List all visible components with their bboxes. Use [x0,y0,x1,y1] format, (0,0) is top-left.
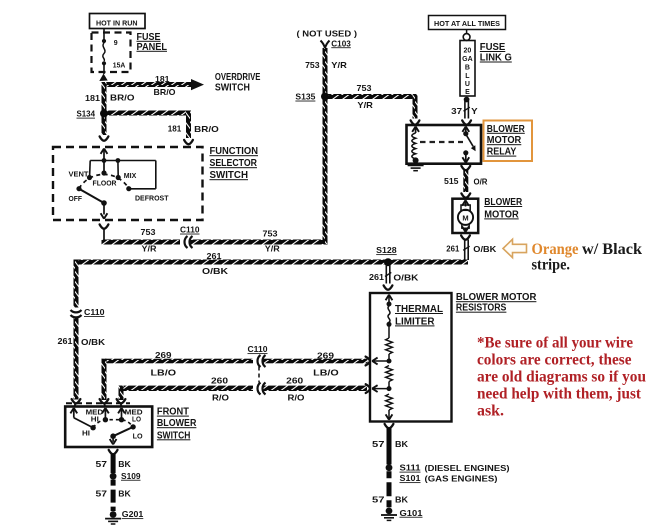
svg-text:753: 753 [141,227,156,237]
svg-text:BK: BK [118,459,131,469]
svg-text:LB/O: LB/O [313,368,339,378]
svg-text:MOTOR: MOTOR [487,135,522,146]
relay ground [408,162,424,171]
svg-text:181: 181 [85,93,100,103]
fuse panel dashed box [92,33,131,73]
wire 181 BR/O S134 branch right [104,111,219,145]
svg-text:261: 261 [446,244,459,254]
svg-text:753: 753 [305,60,320,70]
resistor element R1 [386,327,393,362]
svg-text:57: 57 [96,488,108,498]
svg-text:S111: S111 [400,463,421,473]
blower switch internals [70,408,143,444]
wire 261 O/BK left riser to blower switch [58,260,106,400]
label OVERDRIVE SWITCH [215,72,261,93]
svg-text:C103: C103 [331,38,351,48]
wire 261 O/BK main horizontal run [74,251,469,276]
svg-text:57: 57 [372,439,385,449]
wire 37 Y fuse link to relay [451,97,478,125]
connector C110 break on 753 wire [180,225,200,248]
svg-text:FUNCTION: FUNCTION [210,146,259,157]
wire 753 Y/R from S135 to relay [325,83,419,125]
label BLOWER MOTOR [484,197,523,220]
wire 261 O/BK S128 drop to resistors [369,265,419,290]
svg-text:Y/R: Y/R [331,60,347,70]
relay coil [412,127,419,164]
svg-text:MED: MED [125,409,143,416]
annotation red note [477,334,646,419]
svg-text:MOTOR: MOTOR [484,209,519,220]
svg-text:M: M [462,213,468,222]
svg-text:BLOWER MOTOR: BLOWER MOTOR [456,292,537,303]
resistor tap node to 260 [372,385,392,392]
svg-text:are old diagrams so if you: are old diagrams so if you [477,368,646,385]
svg-text:260: 260 [286,376,303,386]
svg-text:LO: LO [132,416,142,423]
svg-text:B: B [465,64,470,71]
fuse link G 20GA BLUE [460,30,475,97]
svg-text:HI: HI [91,416,99,423]
resistor element R2 [386,366,393,389]
connector C110 break on 261 riser [71,307,105,318]
label FUNCTION SELECTOR SWITCH [210,146,259,181]
svg-text:w/ Black: w/ Black [582,241,642,258]
junction arrow at fuse output [99,74,107,82]
blower motor M internals [458,200,473,232]
wire 753 Y/R vertical C103 through S135 down to 753 run [305,48,347,244]
svg-text:G101: G101 [400,508,423,518]
front blower switch box [65,407,152,448]
wire 57 BK S111 to G101 [372,471,409,507]
svg-text:BR/O: BR/O [110,93,135,103]
svg-text:S134: S134 [77,109,96,119]
wire 269 LB/O horizontal [102,350,371,378]
svg-text:57: 57 [372,494,385,504]
svg-text:S101: S101 [400,473,421,483]
svg-text:O/R: O/R [474,176,488,186]
svg-text:O/BK: O/BK [473,244,497,254]
connector C110 break on 260 wire [253,383,266,395]
svg-text:*Be sure of all your wire: *Be sure of all your wire [477,334,633,351]
wire 57 BK switch to S109 [96,450,132,473]
svg-text:R/O: R/O [288,393,305,403]
svg-text:colors are correct, these: colors are correct, these [477,351,632,368]
wire 260 R/O riser [119,386,124,400]
HOT AT ALL TIMES power box [429,16,506,30]
svg-text:181: 181 [168,123,182,133]
node ( NOT USED ) C103 [297,28,358,48]
splice S111 S101 [386,463,510,484]
svg-text:LIMITER: LIMITER [395,316,435,327]
svg-text:S109: S109 [121,471,141,481]
splice S135 [295,92,315,102]
svg-text:260: 260 [211,376,228,386]
svg-text:GA: GA [462,56,473,63]
svg-text:DEFROST: DEFROST [135,194,169,203]
svg-text:Y/R: Y/R [142,243,157,253]
svg-text:BR/O: BR/O [154,87,176,97]
splice S128 [376,245,397,266]
svg-text:SWITCH: SWITCH [210,170,249,181]
svg-text:BLOWER: BLOWER [157,418,197,429]
svg-text:O/BK: O/BK [81,337,106,347]
svg-text:L: L [465,73,470,80]
wire 181 BR/O to overdrive switch [102,74,204,97]
resistor tap node to 269 [372,358,392,365]
svg-text:BLOWER: BLOWER [487,124,526,135]
svg-text:FUSE: FUSE [480,42,506,53]
svg-text:HOT IN RUN: HOT IN RUN [96,18,138,27]
ground G101 [381,508,423,521]
svg-text:20: 20 [464,48,472,55]
svg-text:BK: BK [118,488,131,498]
svg-text:37: 37 [451,106,462,116]
svg-text:(DIESEL ENGINES): (DIESEL ENGINES) [425,463,510,473]
svg-text:stripe.: stripe. [532,257,571,274]
label FUSE LINK G [480,42,512,64]
svg-text:O/BK: O/BK [393,273,419,283]
svg-text:E: E [465,89,470,96]
svg-text:MED: MED [86,409,104,416]
label BLOWER MOTOR RELAY orange box [484,121,533,162]
svg-text:BR/O: BR/O [194,124,219,134]
svg-text:FRONT: FRONT [157,407,189,418]
svg-text:BLOWER: BLOWER [484,197,523,208]
wire 515 O/R relay to motor [444,166,488,198]
svg-text:R/O: R/O [212,393,229,403]
svg-text:(GAS ENGINES): (GAS ENGINES) [425,473,498,483]
svg-text:753: 753 [263,229,278,239]
svg-text:S135: S135 [295,92,315,102]
svg-text:SWITCH: SWITCH [215,82,250,93]
svg-text:LB/O: LB/O [151,368,177,378]
HOT IN RUN power box [90,14,146,29]
relay switch contact [462,127,475,163]
svg-text:C110: C110 [180,225,200,235]
annotation arrow orange [503,239,527,257]
svg-text:261: 261 [369,272,384,282]
svg-text:U: U [465,81,470,88]
blower motor box [452,199,478,233]
wire 181 BR/O fuse to S134 [85,82,135,114]
svg-text:Y: Y [471,106,478,116]
function selector switch dashed box [53,147,203,220]
svg-text:753: 753 [357,83,372,93]
svg-text:SWITCH: SWITCH [157,430,191,441]
svg-text:RELAY: RELAY [487,147,517,158]
label FRONT BLOWER SWITCH [157,407,197,442]
svg-text:9: 9 [114,40,118,47]
svg-text:G201: G201 [122,509,144,519]
svg-text:269: 269 [317,351,334,361]
splice dot S135 [321,93,329,101]
wire 269 LB/O riser [102,359,107,400]
svg-text:OFF: OFF [69,194,83,203]
svg-text:C110: C110 [248,344,268,354]
svg-text:LINK G: LINK G [480,53,512,64]
splice S109 [110,471,141,481]
connector C110 break on 269 wire [248,344,268,383]
thermal limiter [386,295,443,328]
svg-text:S128: S128 [376,245,397,255]
wire S134 down to function switch [100,114,109,141]
svg-text:Y/R: Y/R [265,244,280,254]
svg-text:THERMAL: THERMAL [395,304,443,315]
svg-text:181: 181 [155,74,170,84]
wire 57 BK S109 to G201 [96,480,132,511]
svg-text:HOT AT ALL TIMES: HOT AT ALL TIMES [434,19,500,28]
svg-text:O/BK: O/BK [202,266,229,276]
svg-text:FLOOR: FLOOR [93,178,118,187]
svg-text:BK: BK [395,439,409,449]
label BLOWER MOTOR RESISTORS [456,292,537,314]
wire 57 BK resistors to S111 [372,424,409,465]
blower motor relay box [407,125,482,164]
svg-text:C110: C110 [84,307,105,317]
svg-text:VENT: VENT [69,170,89,179]
relay dashed actuating link [420,141,463,143]
svg-text:15A: 15A [113,62,126,69]
wire 261 O/BK motor drop [446,235,497,260]
svg-text:MIX: MIX [124,171,137,180]
label FUSE PANEL [137,32,168,53]
svg-text:need help with them, just: need help with them, just [477,385,642,402]
wire 753 Y/R from function switch to C110 and S135 riser [100,224,328,253]
svg-text:57: 57 [96,459,108,469]
blower motor resistors box [370,293,452,422]
svg-text:RESISTORS: RESISTORS [456,303,507,314]
svg-text:261: 261 [58,336,73,346]
connector row above blower switch [66,399,130,406]
svg-text:269: 269 [155,350,172,360]
svg-text:LO: LO [133,433,144,440]
svg-text:Y/R: Y/R [357,100,373,110]
fuse 9 15A inside fuse panel [102,29,125,75]
resistor element R3 [386,394,393,420]
wire 260 R/O horizontal [119,376,371,403]
svg-text:( NOT USED ): ( NOT USED ) [297,28,358,38]
svg-text:Orange: Orange [532,241,579,258]
svg-text:515: 515 [444,176,459,186]
svg-text:PANEL: PANEL [137,42,168,53]
svg-text:261: 261 [207,251,222,261]
svg-text:ask.: ask. [477,402,504,419]
svg-text:SELECTOR: SELECTOR [210,158,258,169]
splice dot S134 [100,110,108,118]
function switch internals [69,149,169,219]
annotation Orange w/ Black stripe [532,241,643,274]
svg-text:HI: HI [82,430,90,437]
splice S134 [77,109,96,119]
svg-text:BK: BK [395,494,409,504]
ground G201 [105,509,143,524]
